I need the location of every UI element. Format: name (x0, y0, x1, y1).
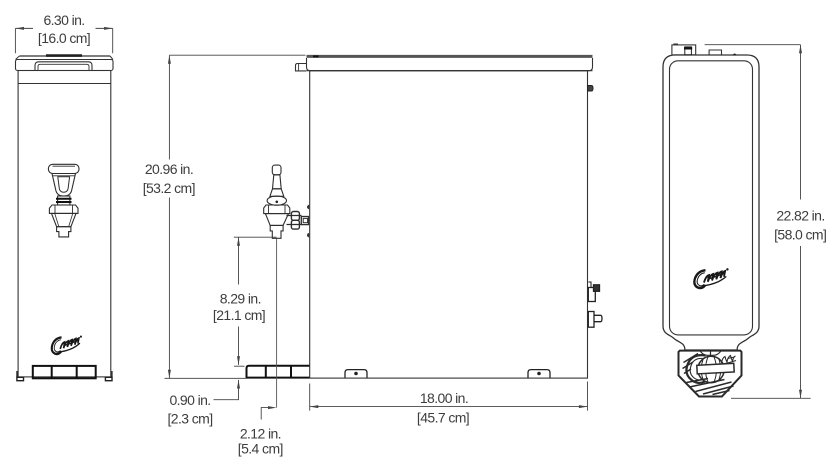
side wall lower fitting (588, 312, 602, 328)
side lid tick (313, 55, 319, 57)
side body (310, 71, 588, 378)
side faucet spout (270, 225, 283, 238)
front left foot (17, 371, 24, 381)
side lid (307, 55, 593, 58)
side faucet hex nut (264, 205, 290, 214)
faucet handle shield (52, 174, 76, 197)
svg-text:6.30 in.: 6.30 in. (43, 12, 84, 28)
top fitting small box (709, 50, 721, 55)
emblem hatch upper (683, 354, 699, 374)
side faucet stem (273, 175, 282, 189)
side faucet cap (272, 165, 281, 175)
octagon top bumps (700, 351, 721, 356)
side wall screw bottom (307, 233, 309, 237)
front Curtis logo (52, 335, 82, 354)
svg-text:2.12 in.: 2.12 in. (240, 425, 281, 441)
side wall screw top (307, 205, 309, 209)
dim 2.12 left arrow and elbow (268, 406, 277, 409)
dim 18.00 right arrow (579, 405, 588, 408)
dim 0.90 arrow below floor (237, 380, 240, 389)
top view inner panel (670, 61, 753, 335)
svg-text:[2.3 cm]: [2.3 cm] (168, 410, 213, 426)
floor line (165, 377, 247, 379)
dim 20.96 bottom arrow (168, 370, 171, 379)
emblem urtis script (722, 356, 737, 365)
dim 8.29 top arrow (237, 237, 240, 246)
spout centerline (276, 238, 278, 407)
svg-text:[58.0 cm]: [58.0 cm] (774, 226, 826, 242)
faucet handle inner U (58, 177, 70, 192)
svg-text:22.82 in.: 22.82 in. (776, 207, 824, 223)
side base bar (247, 366, 310, 378)
front right foot (105, 371, 112, 381)
side faucet cone (270, 189, 284, 197)
emblem globe circle (698, 356, 724, 382)
dim 20.96 top arrow (168, 55, 171, 64)
side faucet wall flange (301, 217, 308, 225)
top view Curtis logo (694, 268, 728, 288)
top view outer shell (663, 55, 759, 350)
dim 6.30 right arrow (104, 27, 113, 30)
svg-text:[21.1 cm]: [21.1 cm] (213, 307, 265, 323)
svg-text:[53.2 cm]: [53.2 cm] (143, 180, 195, 196)
faucet body (52, 213, 77, 226)
svg-text:18.00 in.: 18.00 in. (420, 390, 468, 406)
dim 8.29 bottom tick (234, 365, 245, 367)
side lid front tab (296, 64, 307, 71)
svg-text:[16.0 cm]: [16.0 cm] (38, 30, 90, 46)
front body (18, 71, 111, 377)
dim 20.96 top leader (169, 54, 305, 56)
dim 18.00 extension lines (310, 382, 588, 411)
top fitting valve (684, 47, 692, 55)
side wall upper fitting (588, 282, 599, 302)
dim 22.82 top arrow (799, 45, 802, 54)
dim 18.00 left arrow (310, 405, 319, 408)
side wall top nub (588, 86, 593, 92)
side faucet (264, 165, 309, 238)
front body seam (18, 83, 111, 85)
dim 6.30 left arrow (15, 27, 24, 30)
svg-text:8.29 in.: 8.29 in. (220, 291, 261, 307)
front lid dark band (46, 54, 82, 57)
dim 8.29 bottom arrow (237, 356, 240, 365)
dim 22.82 top leader (705, 44, 801, 46)
svg-text:[5.4 cm]: [5.4 cm] (238, 440, 283, 456)
side faucet bell (267, 196, 286, 205)
drip tray octagon (679, 351, 742, 397)
faucet bonnet (49, 205, 78, 213)
side foot left (345, 370, 367, 378)
dim 18.00 line (310, 406, 588, 408)
side faucet shank (287, 216, 302, 225)
svg-text:[45.7 cm]: [45.7 cm] (417, 409, 469, 425)
dim 6.30 line right (96, 27, 113, 29)
dim 22.82 bottom leader (731, 397, 811, 399)
dim 22.82 vertical line (800, 45, 802, 399)
emblem hatch lower (687, 379, 734, 395)
side faucet body (265, 214, 288, 226)
top small dot (733, 53, 736, 56)
dim 20.96 vertical line (168, 55, 170, 378)
front base bar (33, 366, 96, 378)
emblem C swirl (686, 355, 705, 383)
front lid (16, 56, 114, 71)
svg-text:20.96 in.: 20.96 in. (145, 161, 193, 177)
emblem band (697, 363, 734, 374)
faucet neck (58, 196, 70, 205)
dim 8.29 vertical line (238, 237, 240, 365)
front lid handle recess (35, 62, 92, 71)
dim 8.29 top leader (234, 236, 277, 238)
faucet spout (57, 227, 71, 237)
dim 6.30 line left (15, 27, 33, 29)
side foot right (528, 370, 550, 378)
dim 22.82 bottom arrow (799, 390, 802, 399)
dim 6.30 extension lines (15, 28, 112, 53)
top fitting block (672, 44, 696, 55)
faucet handle top bar (48, 164, 79, 173)
front faucet (48, 164, 79, 237)
svg-text:0.90 in.: 0.90 in. (169, 392, 210, 408)
